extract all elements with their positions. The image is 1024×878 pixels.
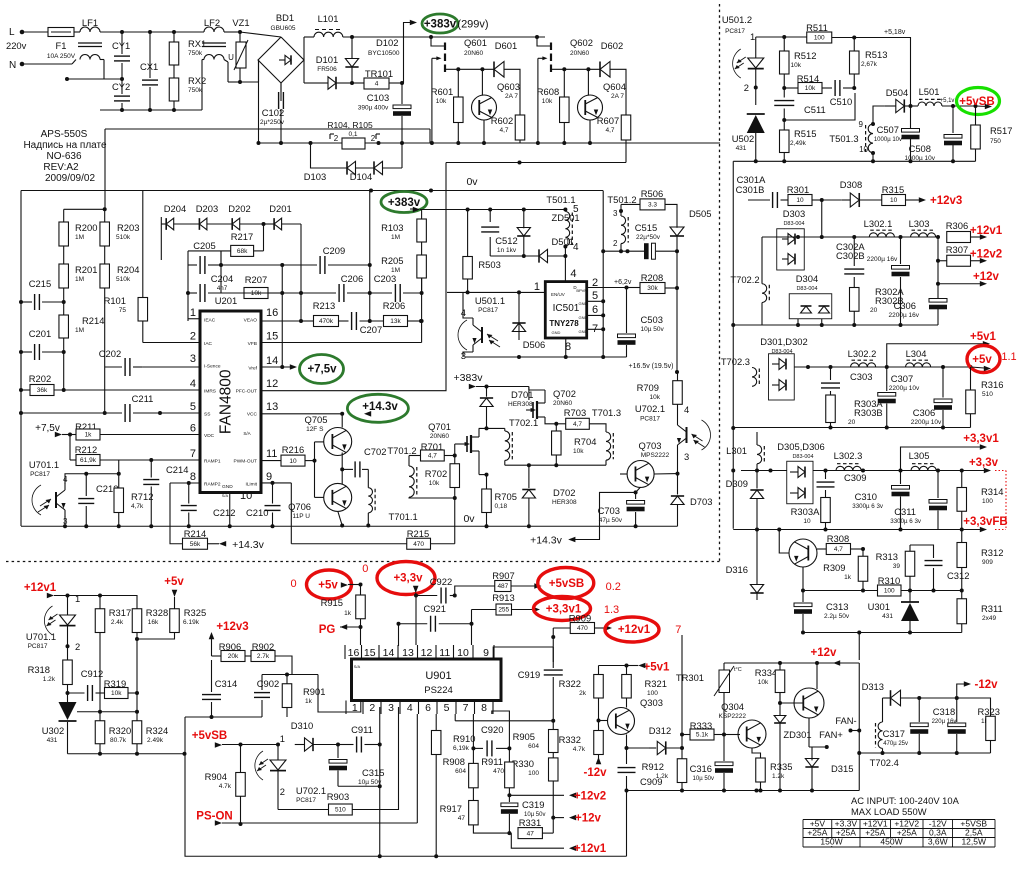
svg-text:3,6W: 3,6W — [928, 837, 948, 847]
svg-text:10µ 50v: 10µ 50v — [641, 326, 665, 333]
svg-text:PFC-OUT: PFC-OUT — [236, 389, 257, 395]
svg-text:0v: 0v — [466, 176, 478, 188]
svg-text:R328: R328 — [146, 607, 168, 618]
svg-text:D83-004: D83-004 — [792, 454, 813, 460]
svg-text:2200µ 10v: 2200µ 10v — [911, 419, 942, 426]
svg-text:10: 10 — [859, 145, 868, 154]
svg-text:HER308: HER308 — [508, 401, 533, 408]
svg-text:R308: R308 — [827, 533, 849, 544]
svg-text:100: 100 — [647, 690, 658, 697]
svg-text:+5vSB: +5vSB — [192, 730, 227, 742]
svg-text:R206: R206 — [383, 300, 405, 311]
svg-text:C919: C919 — [518, 669, 540, 680]
svg-text:1k: 1k — [305, 698, 313, 705]
svg-text:+3,3v: +3,3v — [969, 457, 999, 469]
svg-text:30k: 30k — [647, 285, 658, 292]
svg-text:750: 750 — [990, 138, 1001, 145]
svg-text:R202: R202 — [29, 373, 51, 384]
svg-text:R901: R901 — [303, 686, 325, 697]
svg-text:AC INPUT: 100-240V 10A: AC INPUT: 100-240V 10A — [851, 795, 960, 806]
svg-text:487: 487 — [497, 583, 508, 590]
svg-text:1M: 1M — [75, 234, 84, 241]
svg-text:IC501: IC501 — [553, 303, 580, 314]
svg-text:C911: C911 — [351, 724, 373, 735]
svg-text:1k: 1k — [344, 610, 352, 617]
svg-text:R101: R101 — [104, 295, 126, 306]
svg-text:10k: 10k — [758, 679, 769, 686]
svg-text:20: 20 — [870, 307, 878, 314]
svg-text:20N60: 20N60 — [553, 400, 573, 407]
svg-text:36k: 36k — [37, 387, 48, 394]
svg-text:1000µ 10v: 1000µ 10v — [905, 155, 936, 162]
svg-text:1: 1 — [750, 31, 755, 42]
svg-text:R913: R913 — [492, 592, 514, 603]
svg-text:S/A: S/A — [354, 664, 361, 669]
svg-text:Q304: Q304 — [721, 701, 744, 712]
svg-text:1.2k: 1.2k — [656, 773, 669, 780]
svg-text:2k: 2k — [579, 690, 587, 697]
svg-text:C920: C920 — [481, 724, 503, 735]
svg-text:470k: 470k — [319, 318, 334, 325]
svg-text:+12v1: +12v1 — [970, 225, 1003, 237]
svg-text:C508: C508 — [909, 143, 931, 154]
svg-text:RAMP2: RAMP2 — [204, 482, 221, 488]
svg-text:4,7k: 4,7k — [131, 503, 144, 510]
svg-text:5: 5 — [444, 702, 450, 714]
svg-text:12: 12 — [266, 378, 278, 390]
svg-text:2A 7: 2A 7 — [505, 93, 518, 100]
svg-text:D703: D703 — [690, 496, 712, 507]
svg-text:L101: L101 — [318, 13, 339, 24]
svg-text:R904: R904 — [205, 771, 227, 782]
svg-text:604: 604 — [455, 768, 466, 775]
svg-text:C922: C922 — [430, 576, 452, 587]
svg-text:10: 10 — [803, 518, 811, 525]
svg-text:D204: D204 — [164, 203, 186, 214]
svg-text:220v: 220v — [6, 40, 27, 51]
svg-text:R318: R318 — [28, 664, 50, 675]
svg-text:R312: R312 — [981, 547, 1003, 558]
svg-text:MPS2222: MPS2222 — [641, 452, 670, 459]
svg-text:R310: R310 — [878, 575, 900, 586]
svg-text:L302.3: L302.3 — [834, 450, 863, 461]
svg-text:10: 10 — [796, 197, 804, 204]
svg-text:470µ 25v: 470µ 25v — [883, 741, 908, 747]
svg-text:+12v2: +12v2 — [970, 249, 1002, 261]
svg-text:R704: R704 — [574, 436, 596, 447]
svg-text:R513: R513 — [865, 49, 887, 60]
svg-text:C318: C318 — [933, 706, 955, 717]
svg-text:12F S: 12F S — [306, 426, 324, 433]
svg-text:470: 470 — [577, 625, 588, 632]
svg-text:R334: R334 — [755, 667, 777, 678]
svg-text:U702.1: U702.1 — [635, 403, 665, 414]
svg-text:R324: R324 — [146, 725, 168, 736]
svg-text:C204: C204 — [211, 273, 233, 284]
svg-text:450W: 450W — [880, 837, 902, 847]
svg-text:4,7: 4,7 — [573, 421, 582, 428]
svg-text:2x49: 2x49 — [982, 615, 996, 622]
svg-text:510: 510 — [335, 807, 346, 814]
svg-text:U302: U302 — [42, 725, 64, 736]
svg-text:MAX LOAD 550W: MAX LOAD 550W — [851, 806, 927, 817]
svg-text:20k: 20k — [228, 653, 239, 660]
svg-text:9: 9 — [483, 647, 489, 659]
svg-text:T501.3: T501.3 — [829, 133, 858, 144]
svg-text:R303A: R303A — [791, 506, 820, 517]
svg-text:C312: C312 — [947, 570, 969, 581]
svg-text:PC817: PC817 — [640, 416, 660, 423]
svg-text:R214: R214 — [82, 315, 104, 326]
svg-text:C201: C201 — [29, 328, 51, 339]
svg-text:20N60: 20N60 — [464, 50, 484, 57]
svg-text:2200µ 16v: 2200µ 16v — [889, 312, 920, 319]
svg-text:CX1: CX1 — [140, 61, 158, 72]
svg-text:FAN-: FAN- — [835, 715, 856, 726]
svg-text:+5v: +5v — [318, 580, 338, 592]
svg-text:BPVM: BPVM — [576, 288, 587, 293]
svg-text:R607: R607 — [597, 115, 619, 126]
svg-text:6: 6 — [425, 702, 431, 714]
svg-text:2A 7: 2A 7 — [611, 93, 624, 100]
svg-text:R215: R215 — [407, 528, 429, 539]
svg-text:PC817: PC817 — [478, 307, 498, 314]
svg-text:C209: C209 — [323, 245, 345, 256]
svg-text:R602: R602 — [491, 115, 513, 126]
svg-text:R512: R512 — [794, 50, 816, 61]
svg-text:R903: R903 — [327, 791, 349, 802]
svg-text:4: 4 — [375, 81, 379, 88]
svg-text:C212: C212 — [213, 507, 235, 518]
svg-text:C301B: C301B — [736, 184, 765, 195]
svg-text:2: 2 — [369, 702, 375, 714]
svg-text:FR506: FR506 — [317, 66, 337, 73]
svg-text:+12v2: +12v2 — [574, 791, 606, 803]
svg-text:470: 470 — [413, 541, 424, 548]
svg-text:68k: 68k — [237, 248, 248, 255]
svg-text:R214: R214 — [184, 528, 206, 539]
svg-text:1: 1 — [190, 307, 196, 319]
svg-text:2.7k: 2.7k — [257, 653, 270, 660]
svg-text:Q303: Q303 — [640, 697, 663, 708]
svg-text:6,19k: 6,19k — [453, 745, 470, 752]
svg-text:R217: R217 — [231, 231, 253, 242]
svg-text:N: N — [9, 60, 16, 71]
svg-text:0.2: 0.2 — [606, 581, 621, 593]
svg-text:R306: R306 — [946, 220, 968, 231]
svg-text:PC817: PC817 — [30, 471, 50, 478]
svg-text:1k: 1k — [85, 432, 93, 439]
svg-text:Q603: Q603 — [497, 81, 520, 92]
svg-text:2,49k: 2,49k — [790, 140, 807, 147]
svg-text:470: 470 — [493, 768, 504, 775]
svg-text:C510: C510 — [830, 96, 852, 107]
svg-text:EN/UV: EN/UV — [551, 292, 565, 297]
svg-text:10k: 10k — [573, 448, 584, 455]
svg-text:10k: 10k — [429, 480, 440, 487]
svg-text:LF2: LF2 — [204, 17, 220, 28]
svg-text:13: 13 — [402, 647, 414, 659]
svg-text:510k: 510k — [116, 276, 131, 283]
svg-text:+12v: +12v — [575, 813, 602, 825]
svg-text:FAN4800: FAN4800 — [218, 369, 235, 434]
svg-text:U301: U301 — [868, 601, 890, 612]
svg-text:10: 10 — [289, 458, 297, 465]
svg-text:7: 7 — [463, 702, 469, 714]
svg-text:0,18: 0,18 — [495, 503, 508, 510]
svg-text:+5v: +5v — [972, 354, 992, 366]
svg-text:ILimit: ILimit — [246, 482, 258, 488]
svg-text:510k: 510k — [116, 234, 131, 241]
svg-text:GND: GND — [222, 484, 233, 490]
svg-text:10k: 10k — [791, 62, 802, 69]
svg-text:C316: C316 — [690, 763, 712, 774]
svg-text:R503: R503 — [478, 259, 500, 270]
svg-text:5: 5 — [573, 204, 579, 215]
svg-text:0: 0 — [362, 563, 368, 575]
svg-text:10: 10 — [240, 490, 252, 502]
svg-text:15: 15 — [266, 331, 278, 343]
svg-text:C314: C314 — [215, 678, 237, 689]
svg-text:2200µ 10v: 2200µ 10v — [889, 385, 920, 392]
svg-text:GND: GND — [579, 329, 588, 334]
svg-text:+6,2v: +6,2v — [614, 279, 632, 286]
svg-text:C317: C317 — [883, 728, 905, 739]
svg-text:5: 5 — [190, 401, 196, 413]
svg-text:L302.2: L302.2 — [848, 348, 877, 359]
svg-text:R203: R203 — [117, 222, 139, 233]
svg-text:750k: 750k — [188, 50, 203, 57]
svg-text:C306: C306 — [913, 407, 935, 418]
svg-text:ZD301: ZD301 — [783, 729, 811, 740]
svg-text:61,9k: 61,9k — [80, 457, 97, 464]
svg-text:+383v: +383v — [454, 372, 484, 384]
svg-text:4,7: 4,7 — [499, 127, 508, 134]
svg-text:C507: C507 — [877, 124, 899, 135]
svg-text:10k: 10k — [251, 290, 262, 297]
svg-text:+12v3: +12v3 — [930, 195, 962, 207]
svg-text:6.19k: 6.19k — [183, 619, 200, 626]
svg-text:T701.1: T701.1 — [389, 511, 418, 522]
svg-text:5.1k: 5.1k — [696, 732, 709, 739]
svg-text:R313: R313 — [876, 551, 898, 562]
svg-text:4: 4 — [407, 702, 413, 714]
svg-text:11P U: 11P U — [293, 513, 311, 520]
svg-text:R201: R201 — [75, 264, 97, 275]
svg-text:-12v: -12v — [974, 679, 998, 691]
svg-text:R314: R314 — [981, 486, 1003, 497]
svg-text:C921: C921 — [424, 603, 446, 614]
svg-text:+3,3v1: +3,3v1 — [963, 433, 999, 445]
svg-text:1k: 1k — [844, 574, 852, 581]
svg-text:CY2: CY2 — [112, 81, 130, 92]
svg-text:10k: 10k — [805, 85, 816, 92]
svg-text:C311: C311 — [894, 506, 916, 517]
svg-text:4,7: 4,7 — [605, 127, 614, 134]
svg-text:GND: GND — [579, 315, 588, 320]
svg-text:D602: D602 — [601, 40, 623, 51]
svg-text:R908: R908 — [443, 756, 465, 767]
svg-text:2: 2 — [280, 786, 285, 797]
svg-text:R909: R909 — [569, 613, 591, 624]
svg-text:390µ 400v: 390µ 400v — [358, 105, 389, 112]
svg-text:NO-636: NO-636 — [46, 151, 81, 162]
svg-text:2: 2 — [75, 641, 80, 652]
svg-text:10: 10 — [457, 647, 469, 659]
svg-text:750k: 750k — [188, 87, 203, 94]
svg-text:R331: R331 — [519, 817, 541, 828]
svg-text:C215: C215 — [29, 278, 51, 289]
svg-text:4: 4 — [190, 378, 196, 390]
svg-text:6: 6 — [592, 304, 598, 316]
svg-text:12: 12 — [421, 647, 433, 659]
svg-text:U: U — [228, 53, 234, 62]
svg-text:D101: D101 — [316, 54, 338, 65]
svg-text:2200µ 16v: 2200µ 16v — [867, 256, 898, 263]
svg-text:2,67k: 2,67k — [861, 61, 878, 68]
svg-text:C309: C309 — [844, 472, 866, 483]
svg-text:8: 8 — [481, 702, 487, 714]
svg-text:+7,5v: +7,5v — [307, 364, 337, 376]
svg-text:0v: 0v — [463, 513, 475, 525]
svg-text:D506: D506 — [523, 339, 545, 350]
svg-text:C702: C702 — [364, 446, 386, 457]
svg-text:15: 15 — [364, 647, 376, 659]
svg-text:L: L — [9, 27, 15, 38]
svg-text:R323: R323 — [978, 706, 1000, 717]
svg-text:LF1: LF1 — [82, 17, 98, 28]
svg-text:604: 604 — [528, 743, 539, 750]
svg-text:D313: D313 — [862, 681, 884, 692]
svg-text:Q703: Q703 — [639, 440, 662, 451]
svg-text:C203: C203 — [374, 273, 396, 284]
svg-text:56k: 56k — [190, 541, 201, 548]
svg-text:D201: D201 — [269, 203, 291, 214]
svg-text:-12v: -12v — [583, 767, 607, 779]
svg-text:L305: L305 — [909, 450, 930, 461]
svg-text:Q702: Q702 — [553, 388, 576, 399]
svg-text:D702: D702 — [553, 487, 575, 498]
svg-text:R912: R912 — [642, 761, 664, 772]
svg-text:U701.1: U701.1 — [26, 631, 56, 642]
svg-text:1.2k: 1.2k — [772, 773, 785, 780]
svg-text:R332: R332 — [559, 734, 581, 745]
svg-text:22µ*50v: 22µ*50v — [636, 234, 661, 241]
svg-text:U901: U901 — [425, 670, 451, 682]
svg-text:REV:A2: REV:A2 — [43, 162, 79, 173]
svg-text:R103: R103 — [381, 222, 403, 233]
svg-text:IMRS: IMRS — [204, 389, 216, 395]
svg-text:D308: D308 — [840, 179, 862, 190]
svg-text:5: 5 — [592, 290, 598, 302]
svg-text:R307: R307 — [946, 244, 968, 255]
svg-text:2: 2 — [371, 134, 376, 143]
svg-text:R207: R207 — [245, 274, 267, 285]
svg-text:47: 47 — [527, 830, 535, 837]
svg-text:13k: 13k — [390, 318, 401, 325]
svg-text:2: 2 — [334, 134, 339, 143]
svg-text:7: 7 — [190, 448, 196, 460]
svg-text:+12v: +12v — [973, 271, 1000, 283]
svg-text:+3,3v: +3,3v — [393, 573, 423, 585]
svg-text:HER308: HER308 — [552, 499, 577, 506]
svg-text:909: 909 — [982, 559, 993, 566]
svg-text:C214: C214 — [166, 464, 188, 475]
svg-text:VEAO: VEAO — [244, 317, 258, 323]
svg-text:C205: C205 — [193, 240, 215, 251]
svg-text:R330: R330 — [512, 758, 534, 769]
svg-text:L303: L303 — [909, 218, 930, 229]
svg-text:D309: D309 — [726, 478, 748, 489]
svg-text:Q604: Q604 — [603, 81, 626, 92]
svg-text:431: 431 — [47, 737, 58, 744]
svg-text:R515: R515 — [794, 128, 816, 139]
svg-text:+12v1: +12v1 — [24, 582, 57, 594]
svg-text:S/A: S/A — [222, 493, 229, 498]
svg-text:+5,1v: +5,1v — [940, 98, 955, 104]
svg-text:D301,D302: D301,D302 — [760, 336, 807, 347]
svg-text:80.7k: 80.7k — [110, 737, 127, 744]
svg-text:R315: R315 — [882, 184, 904, 195]
svg-text:R709: R709 — [637, 382, 659, 393]
svg-text:+12v1: +12v1 — [618, 624, 651, 636]
svg-text:F1: F1 — [56, 40, 67, 51]
svg-text:C206: C206 — [341, 273, 363, 284]
svg-text:TR101: TR101 — [365, 68, 393, 79]
svg-text:+12v1: +12v1 — [574, 843, 607, 855]
svg-text:431: 431 — [882, 613, 893, 620]
svg-text:C515: C515 — [635, 222, 657, 233]
svg-text:2.4k: 2.4k — [111, 619, 124, 626]
svg-text:R712: R712 — [131, 491, 153, 502]
svg-text:IEAC: IEAC — [204, 317, 216, 323]
svg-text:Надпись на плате: Надпись на плате — [23, 140, 107, 151]
svg-text:+16.5v (19.5v): +16.5v (19.5v) — [629, 363, 674, 370]
svg-text:+383v: +383v — [424, 19, 457, 31]
svg-text:R325: R325 — [184, 607, 206, 618]
svg-text:1.1: 1.1 — [1001, 351, 1016, 363]
svg-text:U701.1: U701.1 — [29, 459, 59, 470]
svg-text:R608: R608 — [537, 86, 559, 97]
svg-text:1: 1 — [534, 281, 540, 293]
svg-text:R212: R212 — [75, 444, 97, 455]
svg-text:1: 1 — [75, 593, 80, 604]
svg-text:R705: R705 — [495, 491, 517, 502]
svg-text:4: 4 — [684, 404, 689, 415]
svg-text:D303: D303 — [783, 208, 805, 219]
svg-text:Q705: Q705 — [305, 414, 328, 425]
svg-text:20: 20 — [848, 419, 856, 426]
svg-text:R213: R213 — [313, 300, 335, 311]
svg-text:RAMP1: RAMP1 — [204, 459, 221, 465]
svg-text:L302.1: L302.1 — [864, 218, 893, 229]
svg-text:Q601: Q601 — [464, 37, 487, 48]
svg-text:R905: R905 — [513, 731, 535, 742]
svg-text:D203: D203 — [196, 203, 218, 214]
svg-text:U501.2: U501.2 — [722, 14, 752, 25]
svg-text:T501.1: T501.1 — [546, 194, 575, 205]
svg-text:D83-004: D83-004 — [796, 286, 817, 292]
svg-text:(299v): (299v) — [457, 19, 488, 31]
svg-text:U702.1: U702.1 — [296, 785, 326, 796]
svg-text:431: 431 — [736, 145, 747, 152]
svg-text:L301: L301 — [726, 445, 747, 456]
svg-text:C511: C511 — [804, 104, 826, 115]
svg-text:D505: D505 — [689, 208, 711, 219]
svg-text:T702.2: T702.2 — [730, 274, 759, 285]
svg-text:C319: C319 — [522, 799, 544, 810]
svg-text:R321: R321 — [645, 678, 667, 689]
